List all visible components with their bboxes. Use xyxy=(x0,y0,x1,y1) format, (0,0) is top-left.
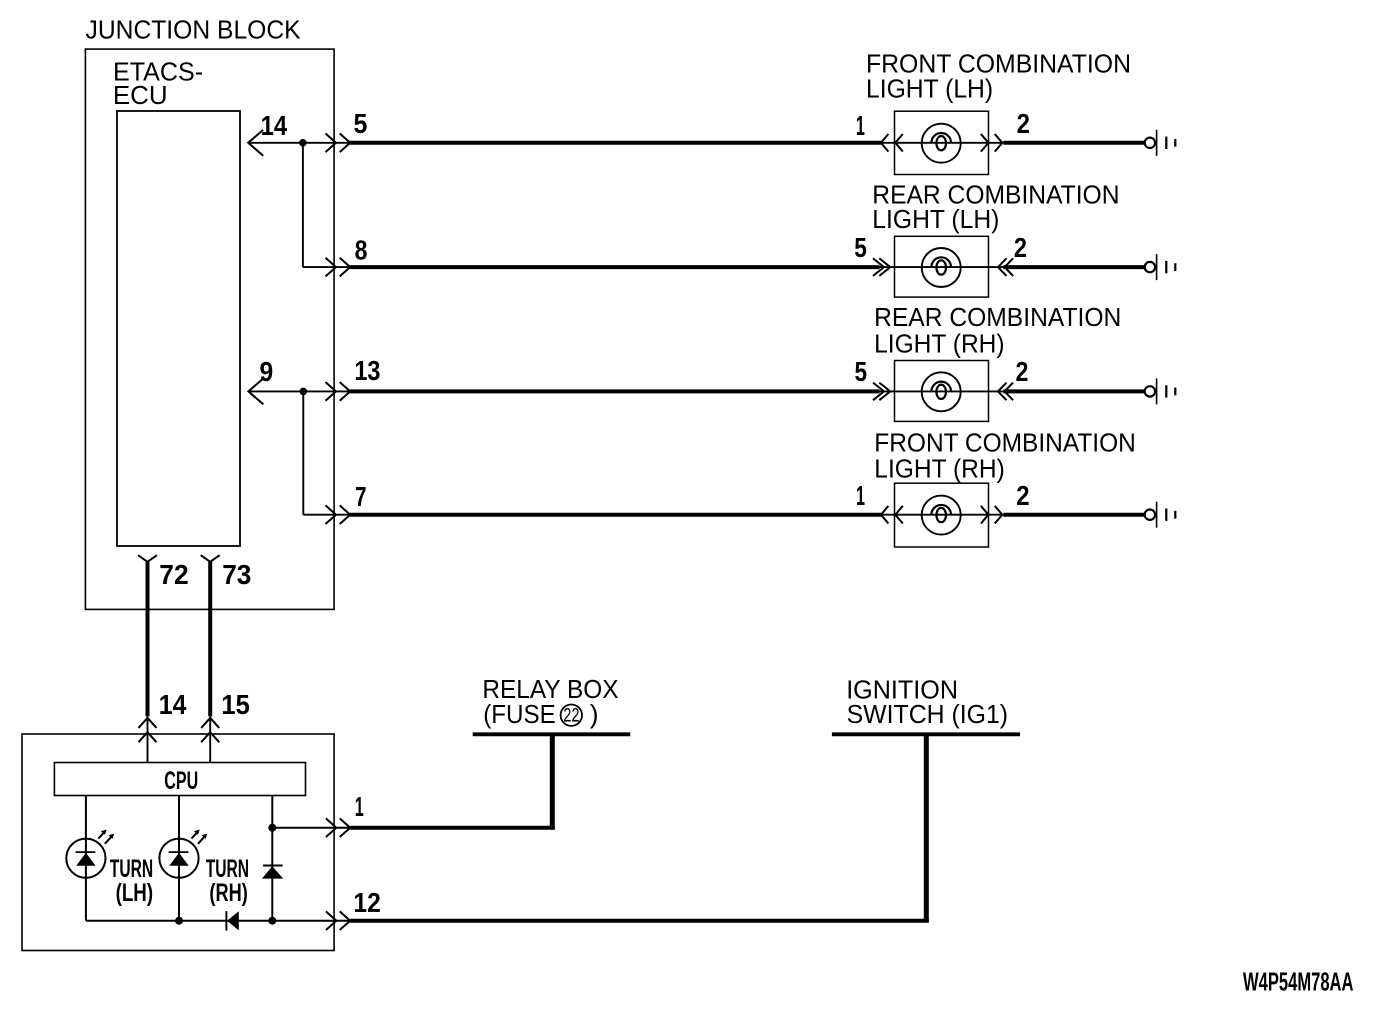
lamp L2 bulb symbol xyxy=(922,248,961,287)
wire row1 thick segment lamp to connector xyxy=(1003,141,1144,145)
wire CPU to LED turn LH xyxy=(85,796,87,921)
connector symbol row1 xyxy=(1145,138,1155,148)
thick wire relay box down xyxy=(550,734,555,829)
wire row4 thick segment lamp to connector xyxy=(1003,513,1144,517)
svg-text:9: 9 xyxy=(260,356,274,387)
ETACS-ECU inner box xyxy=(117,111,240,546)
node D junction dot (turn RH to bus) xyxy=(175,917,183,925)
arrows row3 at junction block edge xyxy=(326,382,337,401)
wire pin9 to node B xyxy=(248,390,303,392)
svg-text:LIGHT (LH): LIGHT (LH) xyxy=(866,73,993,103)
svg-text:LIGHT (RH): LIGHT (RH) xyxy=(874,454,1005,484)
thin wire continuation pin15 lower xyxy=(209,716,211,762)
diode D2 horizontal (triangle left with bar) xyxy=(225,911,227,931)
pin 14 arrow into ETACS-ECU (row1) xyxy=(248,130,263,156)
wire row4 thick segment junction block to lamp xyxy=(350,513,881,517)
arrows row4 at junction block edge xyxy=(326,505,337,524)
wire node A down to row2 xyxy=(302,143,304,267)
arrows pin 12 at lower ECU edge xyxy=(326,911,337,930)
arrows row2 lamp left side (pin 5) xyxy=(873,258,884,276)
connector fork pin 72 at ECU bottom xyxy=(138,555,157,562)
lamp box L2 rear combination light LH xyxy=(895,236,989,297)
thin wire continuation pin14 lower xyxy=(147,716,149,762)
wire node A to row1 arrows xyxy=(303,142,350,144)
wire row4 thin segment through lamp box xyxy=(880,514,1004,516)
svg-text:15: 15 xyxy=(221,689,250,720)
svg-text:14: 14 xyxy=(159,689,187,720)
lower ETACS-ECU box xyxy=(22,734,334,951)
wire row1 thick segment junction block to lamp xyxy=(350,141,881,145)
wire row3 thick segment junction block to lamp xyxy=(350,389,880,393)
arrows row2 at junction block edge xyxy=(326,258,337,277)
wire row4 horizontal to edge xyxy=(303,514,349,516)
connector fork pin 73 at ECU bottom xyxy=(201,555,220,562)
svg-text:73: 73 xyxy=(222,559,251,590)
node C junction dot (pin 1 branch) xyxy=(268,824,276,832)
svg-text:ECU: ECU xyxy=(113,80,168,110)
svg-text:12: 12 xyxy=(353,887,380,918)
svg-text:2: 2 xyxy=(1016,356,1029,387)
svg-text:CPU: CPU xyxy=(164,767,198,795)
svg-text:): ) xyxy=(590,699,599,729)
arrows row3 lamp right side (pin 2) xyxy=(998,383,1007,401)
svg-text:JUNCTION BLOCK: JUNCTION BLOCK xyxy=(86,14,302,44)
svg-text:2: 2 xyxy=(1016,480,1029,511)
node A junction dot xyxy=(299,139,307,147)
svg-text:(RH): (RH) xyxy=(209,879,247,907)
svg-text:(FUSE: (FUSE xyxy=(483,699,556,729)
svg-text:72: 72 xyxy=(159,559,188,590)
lamp box L3 rear combination light RH xyxy=(895,361,989,422)
wire row3 thin segment through lamp box xyxy=(880,390,1004,392)
svg-text:W4P54M78AA: W4P54M78AA xyxy=(1243,966,1354,996)
CPU block xyxy=(54,763,305,796)
junction block box xyxy=(85,49,334,609)
svg-text:LIGHT (RH): LIGHT (RH) xyxy=(874,328,1005,358)
wire node B down to row4 xyxy=(302,391,304,514)
LED turn RH diode triangle and bar xyxy=(169,851,189,853)
arrows pin 15 into lower ECU xyxy=(201,718,219,728)
svg-text:SWITCH (IG1): SWITCH (IG1) xyxy=(847,699,1009,729)
arrows row4 lamp right side (pin 2) xyxy=(981,506,989,524)
svg-text:14: 14 xyxy=(261,110,288,141)
svg-text:5: 5 xyxy=(855,356,868,387)
arrows row2 lamp right side (pin 2) xyxy=(998,258,1007,276)
svg-text:5: 5 xyxy=(854,232,867,263)
LED turn LH light arrows xyxy=(98,832,104,838)
svg-text:2: 2 xyxy=(1014,232,1027,263)
wire row2 horizontal to edge xyxy=(303,266,350,268)
wire node C to pin1 edge xyxy=(272,827,349,829)
node E junction dot (diode chain to bus) xyxy=(268,917,276,925)
LED turn LH diode triangle and bar xyxy=(76,851,96,853)
wire row2 thin segment through lamp box xyxy=(880,266,1004,268)
bottom bus wire inside ECU xyxy=(86,920,349,922)
arrows row1 lamp left side (pin 1) xyxy=(881,134,889,152)
relay box bar xyxy=(473,732,631,736)
wire pin14 to node A xyxy=(248,142,303,144)
connector symbol row3 xyxy=(1145,386,1155,396)
wire row2 thick segment junction block to lamp xyxy=(350,265,880,269)
svg-text:22: 22 xyxy=(563,705,579,727)
wire CPU to diode chain xyxy=(271,796,273,921)
thick wire pin72 down xyxy=(146,561,150,716)
lamp L1 bulb symbol xyxy=(922,124,961,163)
pin 9 arrow into ETACS-ECU (row3) xyxy=(248,378,263,404)
LED turn RH light arrows xyxy=(192,832,198,838)
svg-text:(LH): (LH) xyxy=(116,879,154,907)
svg-text:LIGHT (LH): LIGHT (LH) xyxy=(872,204,999,234)
arrows row4 lamp left side (pin 1) xyxy=(881,506,889,524)
svg-text:2: 2 xyxy=(1017,108,1030,139)
wire node B to row3 arrows xyxy=(303,390,349,392)
ignition switch bar xyxy=(832,732,1020,736)
thick wire pin 1 to relay box xyxy=(350,826,555,830)
thick wire pin73 down xyxy=(208,561,212,716)
connector symbol row2 xyxy=(1145,262,1155,272)
thick wire pin 12 to ignition switch xyxy=(350,919,929,923)
fuse 22 circled number xyxy=(561,705,582,726)
diode D1 vertical (triangle up with bar) xyxy=(263,865,283,867)
svg-text:1: 1 xyxy=(856,480,865,511)
svg-text:1: 1 xyxy=(355,791,364,822)
svg-text:5: 5 xyxy=(354,108,368,139)
svg-text:1: 1 xyxy=(856,110,865,141)
arrows row3 lamp left side (pin 5) xyxy=(873,383,884,401)
svg-text:8: 8 xyxy=(355,235,368,266)
node B junction dot xyxy=(300,388,308,396)
svg-text:7: 7 xyxy=(355,481,367,512)
wire row3 thick segment lamp to connector xyxy=(1003,389,1144,393)
lamp box L1 front combination light LH xyxy=(895,111,989,174)
svg-text:REAR COMBINATION: REAR COMBINATION xyxy=(874,302,1121,332)
LED turn LH circle xyxy=(66,839,105,878)
lamp L3 bulb symbol xyxy=(922,372,961,411)
wire row2 thick segment lamp to connector xyxy=(1003,265,1144,269)
arrows row1 lamp right side (pin 2) xyxy=(981,134,989,152)
wire row1 thin segment through lamp box xyxy=(880,142,1004,144)
LED turn RH circle xyxy=(159,839,198,878)
svg-text:13: 13 xyxy=(354,355,380,386)
arrows row1 at junction block edge xyxy=(326,134,337,153)
lamp L4 bulb symbol xyxy=(922,496,961,535)
lamp box L4 front combination light RH xyxy=(895,483,989,547)
connector symbol row4 xyxy=(1145,510,1155,520)
thick wire ignition switch down xyxy=(924,734,929,922)
arrows pin 14 into lower ECU xyxy=(139,718,157,728)
wire CPU to LED turn RH xyxy=(178,796,180,921)
arrows pin 1 at lower ECU edge xyxy=(326,818,337,837)
